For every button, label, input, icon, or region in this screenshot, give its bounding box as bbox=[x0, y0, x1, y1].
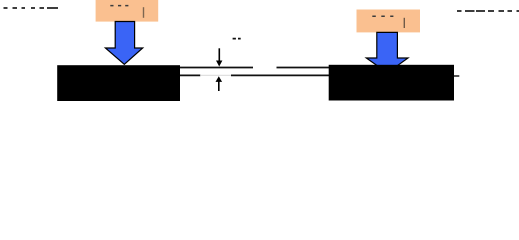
dashed leader line top-left bbox=[4, 7, 59, 9]
force arrow left bbox=[105, 22, 142, 65]
label box left bbox=[96, 0, 159, 22]
label text dashes left bbox=[110, 5, 128, 7]
membrane bottom line gray segment bbox=[200, 74, 231, 76]
label text dashes right bbox=[372, 15, 393, 17]
label cursor bar left bbox=[143, 7, 144, 18]
force arrow right bbox=[366, 32, 408, 72]
membrane top line left segment bbox=[180, 67, 253, 69]
membrane top line right segment bbox=[277, 67, 330, 69]
bottom line stub right of block bbox=[454, 75, 459, 77]
anchor block left bbox=[57, 65, 180, 101]
thickness dimension arrow up bbox=[216, 76, 223, 91]
membrane bottom line left dark segment bbox=[180, 74, 200, 76]
anchor block right bbox=[329, 65, 454, 101]
thickness dimension arrow down bbox=[216, 48, 222, 66]
label box right bbox=[357, 10, 421, 33]
label cursor bar right bbox=[404, 18, 405, 28]
dashed leader line top-right bbox=[457, 10, 519, 12]
gap label tiny dashes bbox=[233, 38, 241, 40]
membrane bottom line right dark segment bbox=[231, 74, 329, 76]
